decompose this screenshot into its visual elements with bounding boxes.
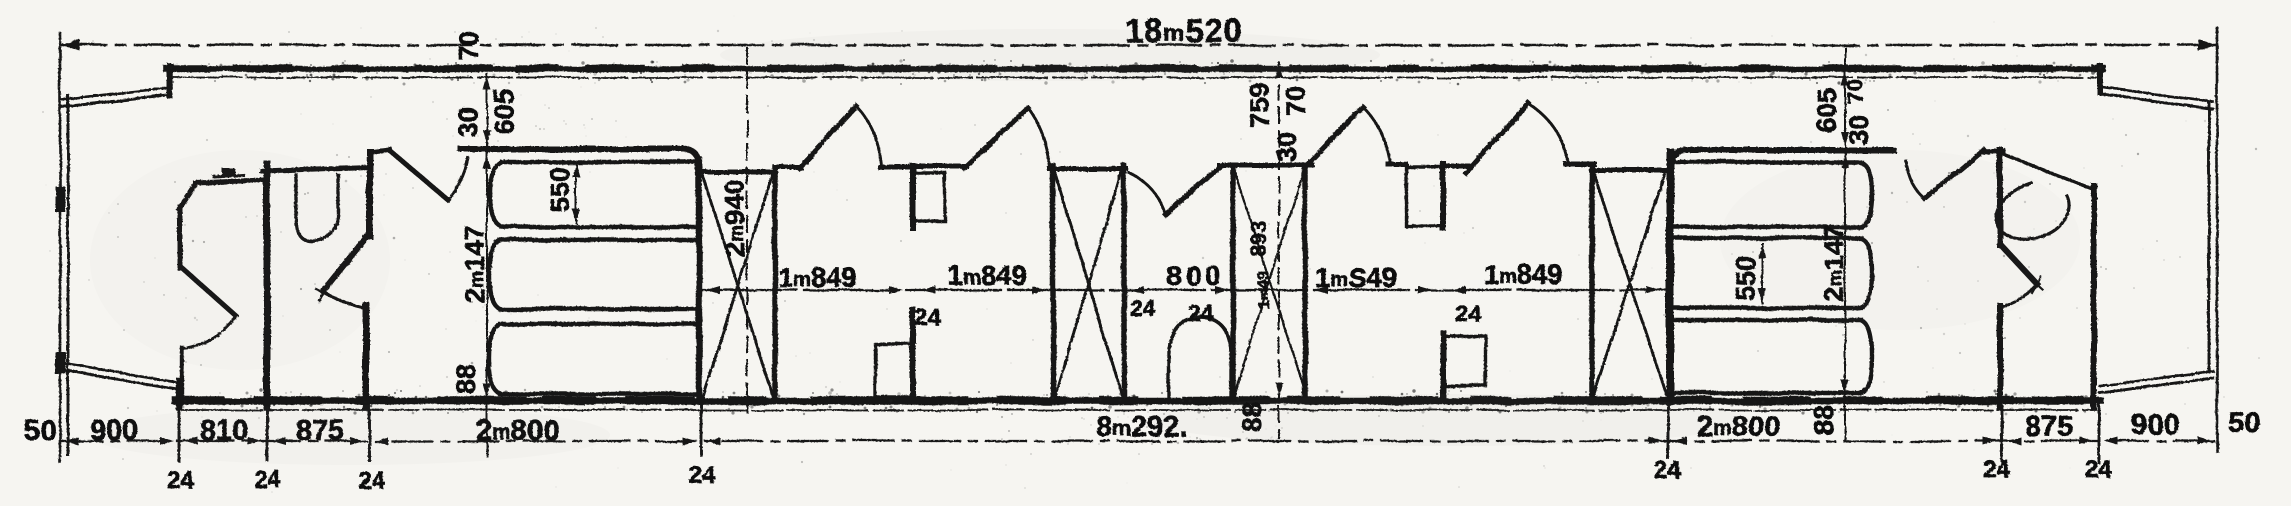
svg-text:88: 88 bbox=[1809, 405, 1839, 435]
washroom 875 WC bowl bbox=[296, 175, 338, 241]
partition P1 lower wall bbox=[910, 310, 916, 400]
svg-text:30: 30 bbox=[453, 107, 483, 137]
svg-text:24: 24 bbox=[689, 462, 716, 489]
svg-text:24: 24 bbox=[167, 467, 194, 494]
svg-text:70: 70 bbox=[1281, 86, 1311, 116]
X vestibule 1 diagonal a bbox=[703, 176, 773, 396]
compartment 3 door leaf bbox=[1305, 107, 1363, 167]
right bench 3 bbox=[1675, 320, 1872, 393]
right room WC bowl loop bbox=[1996, 183, 2069, 239]
svg-text:50: 50 bbox=[2228, 407, 2260, 439]
svg-text:1m849: 1m849 bbox=[1484, 259, 1563, 290]
svg-text:24: 24 bbox=[1654, 457, 1681, 484]
compartment 1 door leaf bbox=[799, 106, 856, 168]
right room right wall bbox=[2091, 186, 2097, 407]
bottom extension line x1668 bbox=[1667, 402, 1670, 458]
svg-text:50: 50 bbox=[24, 415, 56, 447]
body bottom wall thick line bbox=[176, 398, 2101, 404]
left bench 3 bbox=[489, 324, 697, 394]
right bench 2 bbox=[1675, 238, 1872, 308]
right room left wall lower bbox=[1997, 306, 2003, 407]
rivet blob on left wall bbox=[55, 186, 65, 212]
left top step diagonal (double) bbox=[61, 88, 172, 100]
svg-text:24: 24 bbox=[1983, 456, 2010, 483]
toilet room 810 left wall bbox=[178, 207, 183, 268]
bottom extension line x2099 bbox=[2098, 404, 2101, 463]
right top corner post bbox=[2097, 66, 2103, 92]
right body end wall (double line) bbox=[2216, 28, 2219, 451]
svg-text:30: 30 bbox=[1844, 115, 1874, 145]
compartment 1 door arc bbox=[857, 107, 881, 165]
narrow X cell right wall bbox=[1302, 166, 1308, 400]
toilet room 810 door swing arc bbox=[184, 317, 236, 349]
dimension 18m520 top dash-dot line bbox=[62, 44, 2216, 47]
narrow X cell left wall bbox=[1230, 166, 1236, 400]
compartment 2 door arc bbox=[1029, 109, 1050, 168]
X area 2 diagonal b bbox=[1055, 173, 1121, 396]
svg-text:24: 24 bbox=[2085, 456, 2112, 483]
X area 2 right wall bbox=[1121, 166, 1127, 400]
right compartment left wall bbox=[1666, 152, 1674, 400]
section dash line x747 bbox=[746, 48, 748, 412]
partition wall x369 upper bbox=[367, 152, 374, 236]
right room tick at door tip bbox=[2030, 278, 2043, 290]
compartment 4 door arc bbox=[1529, 104, 1568, 161]
X area 3 left wall bbox=[1589, 167, 1595, 398]
right top step diagonal (double) bbox=[2102, 87, 2213, 102]
svg-text:875: 875 bbox=[2025, 411, 2073, 443]
washroom 875 door swing arc bbox=[323, 291, 368, 309]
bottom extension line x179 bbox=[178, 406, 181, 461]
compartment 4 top wall segments bbox=[1443, 164, 1468, 169]
bottom dim arrows bbox=[64, 437, 2212, 445]
bottom extension line x701 bbox=[700, 404, 703, 455]
bottom extension line x267 bbox=[266, 406, 269, 460]
svg-text:1mS49: 1mS49 bbox=[1315, 262, 1397, 293]
svg-text:24: 24 bbox=[915, 304, 941, 330]
left bench 2 bbox=[489, 240, 697, 309]
compartment 2 top wall segment bbox=[916, 164, 966, 169]
toilet room 810 door leaf bbox=[181, 267, 236, 316]
narrow X cell diagonal a bbox=[1235, 172, 1306, 394]
800 area top wall segment bbox=[1219, 163, 1312, 168]
svg-text:800: 800 bbox=[1166, 260, 1225, 291]
left body end wall (double line) bbox=[59, 33, 62, 462]
svg-text:24: 24 bbox=[254, 466, 281, 493]
partition wall x267 bbox=[264, 164, 271, 407]
compartment 3 door arc bbox=[1364, 108, 1390, 162]
arrow right of 18m520 bbox=[2198, 39, 2216, 51]
right end compartment door arc bbox=[1905, 160, 1925, 199]
X area 3 diagonal a bbox=[1594, 174, 1666, 394]
X area 3 top bar bbox=[1591, 168, 1668, 173]
dim arrows on middle line bbox=[706, 286, 1660, 294]
bottom dimension dashed line bbox=[62, 440, 2216, 442]
partition P5 top pocket bbox=[1406, 167, 1441, 226]
right end compartment door leaf bbox=[1925, 150, 1984, 199]
svg-text:70: 70 bbox=[454, 31, 484, 61]
X area 2 top bar bbox=[1050, 167, 1126, 172]
svg-text:550: 550 bbox=[545, 167, 575, 212]
right room door leaf diagonal bbox=[2000, 244, 2037, 284]
svg-text:70: 70 bbox=[1843, 80, 1868, 104]
svg-text:24: 24 bbox=[1130, 295, 1156, 321]
compartment 4 door leaf bbox=[1466, 103, 1528, 173]
left vestibule wall bbox=[176, 381, 183, 407]
toilet room 810 wall stub to floor bbox=[180, 348, 184, 399]
washroom 875 tick at door tip bbox=[316, 289, 330, 296]
partition P1 upper wall bbox=[910, 166, 916, 228]
X vestibule 1 right wall bbox=[772, 168, 778, 400]
arrow left of 18m520 bbox=[62, 39, 80, 51]
right room left wall upper bbox=[1997, 150, 2003, 245]
dimension line x1845 bbox=[1844, 48, 1846, 440]
svg-text:2m147: 2m147 bbox=[460, 226, 490, 303]
right room door swing arc bbox=[2001, 284, 2037, 307]
section dash line x1279 bbox=[1278, 62, 1280, 438]
partition P5 bottom box bbox=[1447, 336, 1486, 386]
svg-text:24: 24 bbox=[358, 467, 385, 494]
bottom extension line x2004 bbox=[2001, 406, 2004, 461]
washroom 875 diagonal partition bbox=[323, 234, 369, 291]
rivet blob on left wall lower bbox=[55, 352, 66, 374]
compartment 2 door leaf bbox=[964, 108, 1028, 168]
right bottom step diagonal (double) bbox=[2100, 371, 2213, 386]
compartment door swing arc at x450 bbox=[447, 158, 468, 199]
svg-text:2m940: 2m940 bbox=[720, 180, 750, 257]
body top wall thick line bbox=[167, 66, 2102, 72]
bottom extension line x369 bbox=[368, 406, 371, 460]
800 area door leaf bbox=[1166, 165, 1222, 215]
dimension 550 line in right bench 2 bbox=[1761, 243, 1763, 303]
X area 2 left wall bbox=[1050, 166, 1056, 400]
compartment 1 top wall segments bbox=[775, 165, 801, 170]
svg-text:30: 30 bbox=[1272, 132, 1302, 162]
svg-text:605: 605 bbox=[489, 89, 519, 134]
middle dimension line y290 bbox=[702, 289, 1665, 291]
dimension 550 line in left bench 1 bbox=[575, 163, 577, 223]
svg-text:88: 88 bbox=[451, 364, 481, 394]
toilet room 810 top wall bbox=[196, 180, 264, 183]
left bench 1 bbox=[490, 162, 697, 227]
svg-text:605: 605 bbox=[1812, 88, 1842, 133]
right room top wall segment bbox=[1982, 151, 2003, 152]
partition P5 lower wall bbox=[1440, 333, 1446, 400]
dimension 2m147 vertical line x487 bbox=[486, 74, 488, 146]
svg-text:1m49: 1m49 bbox=[1256, 272, 1273, 309]
X area 3 diagonal b bbox=[1594, 174, 1664, 394]
svg-text:893: 893 bbox=[1246, 220, 1271, 257]
compartment door leaf at x390 bbox=[372, 150, 390, 152]
body bottom wall thin line bbox=[182, 409, 2096, 411]
partition wall x369 lower bbox=[363, 306, 370, 407]
washroom 875 top wall bbox=[262, 167, 370, 171]
svg-text:1m849: 1m849 bbox=[778, 262, 857, 293]
partition P5 upper wall bbox=[1440, 164, 1446, 228]
800 area door arc bbox=[1129, 173, 1166, 215]
body top wall thin line bbox=[172, 77, 2098, 79]
svg-text:1m849: 1m849 bbox=[948, 260, 1027, 291]
svg-text:759: 759 bbox=[1245, 83, 1275, 128]
right bench 1 bbox=[1675, 162, 1872, 227]
scan haze bbox=[90, 29, 2080, 465]
X area 2 diagonal a bbox=[1055, 173, 1122, 396]
right room top diagonal edge bbox=[2000, 153, 2090, 188]
svg-text:900: 900 bbox=[2131, 409, 2179, 441]
partition P1 top pocket bbox=[916, 173, 945, 221]
partition P1 bottom box bbox=[875, 344, 910, 397]
svg-text:24: 24 bbox=[1188, 300, 1214, 326]
left top corner post bbox=[167, 66, 173, 96]
X vestibule 1 diagonal b bbox=[703, 176, 772, 397]
left compartment top wall bbox=[461, 149, 700, 167]
svg-text:24: 24 bbox=[1455, 300, 1481, 326]
compartment 3 top wall segment bbox=[1388, 162, 1406, 167]
left bottom step diagonal (double) bbox=[61, 363, 177, 382]
toilet room 810 top-left chamfer bbox=[179, 183, 197, 209]
stove arch in 800 area bbox=[1169, 317, 1231, 400]
X vestibule 1 top bar bbox=[700, 170, 776, 175]
right compartment top wall bbox=[1670, 150, 1893, 165]
narrow X cell diagonal b bbox=[1235, 174, 1303, 392]
toilet room 810 door handle mark bbox=[214, 175, 243, 177]
left compartment right wall bbox=[696, 160, 703, 400]
